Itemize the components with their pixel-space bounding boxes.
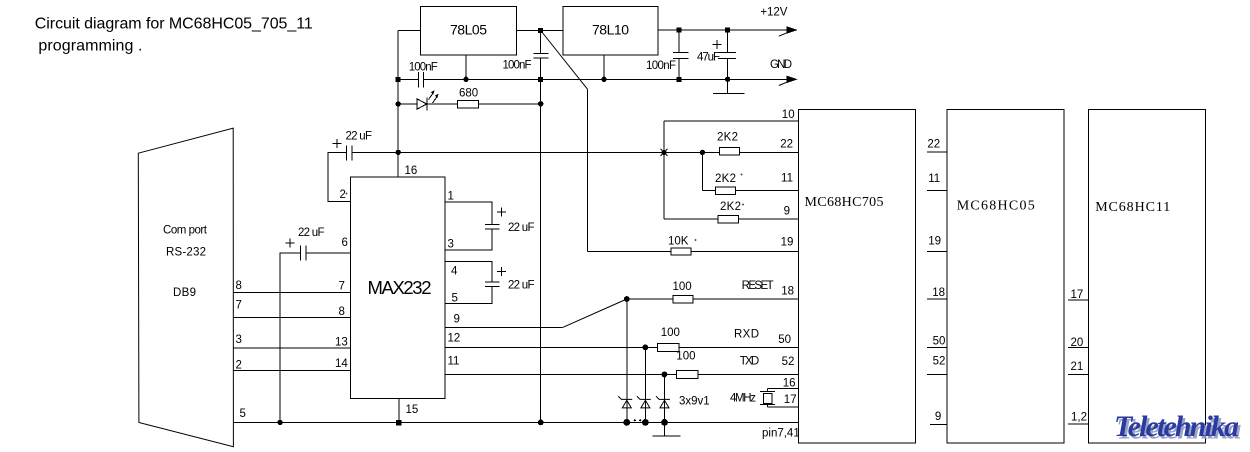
pin 19 stub MC68HC05 [927,236,947,252]
svg-text:Com port: Com port [163,225,208,237]
wire ground bottom rail [233,421,798,423]
svg-text:100: 100 [661,327,680,339]
node X junction +5V [661,149,668,156]
svg-text:22 uF: 22 uF [298,227,325,239]
svg-text:2K2: 2K2 [720,201,741,213]
svg-text:programming .: programming . [38,38,142,55]
wire DB9 pin2 to MAX232 pin14 [233,369,350,371]
wire DB9 pin3 to MAX232 pin13 [233,347,350,349]
resistor R5 10K to pin 19 [588,236,799,256]
svg-text:50: 50 [933,335,946,347]
svg-text:21: 21 [1071,361,1084,373]
wire TXD line MAX232 pin11 to MC68HC705 pin 52 [445,351,798,379]
svg-text:16: 16 [783,378,796,390]
ground rail top [424,78,796,80]
pin 18 stub MC68HC05 [927,287,947,299]
zener diode Z1 9v1 on RESET [618,299,632,422]
node 47uF top junction [725,28,730,33]
node 2K2 branch junction [700,150,705,155]
+5V vertical wire from 78L05 output down to MAX232 pin 16 [397,31,399,178]
diode D1 LED power indicator [398,90,457,110]
op-amp U1 MAX232 [350,177,445,398]
svg-text:RS-232: RS-232 [166,247,206,259]
capacitor C3 22uF at pins 1-3 [485,207,535,234]
svg-text:6: 6 [342,237,348,249]
svg-text:9: 9 [454,314,460,326]
ground symbol bottom [652,422,680,436]
pin 52 stub MC68HC05 [927,355,947,374]
svg-text:19: 19 [928,236,941,248]
svg-text:50: 50 [778,334,791,346]
wire 78L10 input to +12V [658,29,795,31]
crystal X1 4MHz [730,378,798,407]
capacitor C5 100nF (series on +5V rail start) [409,62,438,88]
wire DB9 pin8 to MAX232 pin7 [233,292,350,294]
resistor R1 680 [458,88,541,109]
node 100nF3 gnd (square) [676,77,681,82]
svg-text:17: 17 [784,394,797,406]
svg-text:19: 19 [781,236,794,248]
svg-text:13: 13 [335,337,348,349]
pin 5 loop wire [445,286,492,304]
svg-text:9: 9 [784,206,790,218]
capacitor C6 100nF decoupling at 10V node [503,31,549,80]
capacitor C7 100nF decoupling at 12V [646,30,689,79]
svg-text:22 uF: 22 uF [508,280,535,292]
svg-text:10K: 10K [668,236,689,248]
svg-text:47uF: 47uF [697,52,720,64]
svg-text:MC68HC05: MC68HC05 [957,199,1035,214]
node +5V / 22uF / pin16 [396,150,401,155]
capacitor C1 22uF at pins 2-16 [333,131,399,161]
svg-text:22: 22 [780,139,793,151]
regulator U3 78L10 [563,7,658,56]
pin 9 stub MC68HC05 [930,411,947,424]
ground symbol top [713,79,745,93]
svg-text:2: 2 [236,360,242,372]
svg-text:52: 52 [933,355,946,367]
svg-text:14: 14 [335,358,348,370]
wire pin10 vertical branch [663,121,665,219]
wire dotted marks on rail [634,419,642,421]
svg-text:2: 2 [340,189,346,201]
wire 10V vertical to 10K [587,89,589,251]
svg-text:8: 8 [236,280,242,292]
pin 50 stub MC68HC05 [927,335,947,347]
node Z2 gnd [642,419,649,426]
svg-text:10: 10 [782,109,795,121]
svg-text:RESET: RESET [742,280,774,292]
capacitor C4 22uF at pins 4-5 [485,267,535,292]
wire 78L05 output to +5V vertical [398,30,420,32]
svg-text:20: 20 [1071,337,1084,349]
svg-text:17: 17 [1071,289,1084,301]
svg-text:3x9v1: 3x9v1 [679,395,710,407]
resistor R6 100 RESET [627,280,799,303]
title text [35,15,313,54]
svg-text:Circuit diagram for MC68HC05_7: Circuit diagram for MC68HC05_705_11 [35,15,313,32]
wire 78L05 ground pin [465,55,467,79]
node 22uF2 gnd on rail [277,420,282,425]
node +5V / 100nF1 left (square) [396,77,401,82]
pin 1,2 stub MC68HC11 [1068,411,1089,424]
svg-text:15: 15 [406,404,419,416]
wire DB9 pin7 to MAX232 pin8 [233,317,350,319]
svg-text:2K2: 2K2 [717,132,738,144]
svg-text:12: 12 [448,333,461,345]
pin 3 loop wire [445,229,492,251]
svg-text:7: 7 [339,280,345,292]
svg-text:3: 3 [236,334,242,346]
svg-text:+12V: +12V [760,7,787,19]
node 78L10 gnd [601,77,606,82]
wire +5V line pin16 to 2K2 pullups [398,151,720,153]
node gnd vertical on rail [538,420,544,426]
svg-text:100: 100 [673,281,692,293]
pin 20 stub MC68HC11 [1068,337,1089,349]
capacitor C8 47uF electrolytic [697,30,736,79]
svg-text:5: 5 [240,408,246,420]
svg-text:Teletehnika: Teletehnika [1114,410,1239,443]
ground vertical wire from top rail down to bottom rail [540,79,542,422]
wire 78L10 ground pin [603,55,605,79]
zener diode Z3 9v1 on TXD [656,375,670,423]
node Z3 gnd [661,419,668,426]
IC U5 MC68HC05 [947,109,1064,443]
pin 17 stub MC68HC11 [1068,289,1089,301]
+12V label and arrow [760,7,797,37]
pin 11 stub MC68HC05 [927,173,947,191]
resistor R4 2K2 to pin 9 [664,201,798,223]
resistor R2 2K2 to pin 22 [717,132,798,155]
svg-text:11: 11 [781,173,793,185]
svg-text:DB9: DB9 [173,287,196,299]
connector J1 DB9 com port [138,128,233,447]
svg-text:1: 1 [448,190,454,202]
wire pin 10 to MC68HC705 [664,109,798,121]
pin 9 wire with diagonal to reset node [445,299,627,327]
svg-text:3: 3 [448,239,454,251]
node gnd / 680 resistor right [538,101,543,106]
svg-text:100nF: 100nF [409,62,438,74]
wire +5V to 100nF1 left plate [398,78,418,80]
svg-text:8: 8 [339,306,345,318]
regulator U2 78L05 [421,7,517,56]
svg-text:5: 5 [452,293,458,305]
pin 21 stub MC68HC11 [1068,361,1089,374]
svg-text:100nF: 100nF [646,60,676,72]
wire 10V diagonal feed [541,31,588,90]
svg-text:680: 680 [459,88,478,100]
svg-text:22 uF: 22 uF [508,222,535,234]
svg-text:2K2: 2K2 [715,173,736,185]
node RXD zener junction [643,345,649,351]
svg-text:78L05: 78L05 [450,22,487,38]
node +5V / LED anode [396,101,401,106]
svg-text:18: 18 [932,287,945,299]
node 100nF3 top junction (square) [676,28,681,33]
Teletehnika logo [1114,410,1241,445]
pin 4 loop wire [445,262,492,282]
node RESET junction [624,296,630,302]
node 47uF gnd [725,77,730,82]
svg-text:100nF: 100nF [503,60,532,72]
pin 15 wire MAX232 to gnd [399,399,418,423]
svg-text:52: 52 [782,356,795,368]
pin 6 wire and label [306,237,350,253]
svg-text:18: 18 [781,285,794,297]
node 10V junction (square) [538,28,543,33]
svg-text:22: 22 [927,139,940,151]
wire RXD line MAX232 pin12 to MC68HC705 pin 50 [445,327,798,351]
svg-text:100: 100 [676,351,695,363]
svg-text:GND: GND [770,59,792,71]
svg-text:9: 9 [935,411,941,423]
IC U4 MC68HC705 [798,109,915,443]
node MAX232 pin15 gnd (square) [396,420,401,425]
svg-text:22 uF: 22 uF [346,131,373,143]
svg-text:11: 11 [928,173,940,185]
svg-text:MAX232: MAX232 [368,277,432,298]
wire 78L05 input to 78L10 output [516,30,563,32]
node TXD zener junction [662,372,668,378]
svg-text:TXD: TXD [740,355,760,367]
svg-text:7: 7 [236,300,242,312]
node 78L05 gnd [463,77,468,82]
node Z1 gnd [623,419,630,426]
node 100nF2 gnd (square) [538,77,543,82]
speck dots after labels [346,174,744,241]
svg-text:78L10: 78L10 [592,22,629,38]
pin 2 wire and label [328,152,351,201]
capacitor C2 22uF at pin 6 [280,227,324,422]
IC U6 MC68HC11 [1089,109,1206,443]
svg-text:11: 11 [448,356,460,368]
pin 22 stub MC68HC05 [927,139,947,153]
svg-text:1,2: 1,2 [1071,411,1087,423]
svg-text:16: 16 [405,165,418,177]
svg-text:4MHz: 4MHz [730,393,756,405]
svg-text:RXD: RXD [734,329,759,341]
GND label and arrow [770,59,798,86]
svg-text:pin7,41: pin7,41 [762,428,800,440]
pin 1 loop wire [445,190,492,224]
svg-text:4: 4 [451,266,458,278]
resistor R3 2K2 to pin 11 [702,152,798,194]
svg-text:MC68HC11: MC68HC11 [1095,200,1170,215]
svg-text:MC68HC705: MC68HC705 [805,195,884,210]
zener diode Z2 9v1 on RXD [637,347,651,422]
